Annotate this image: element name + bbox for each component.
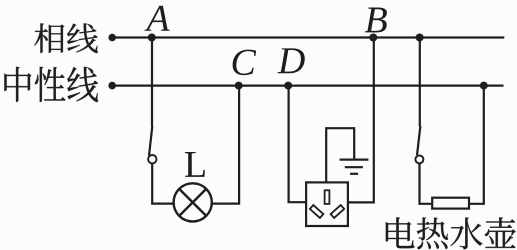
switch S1 blade (lamp switch) <box>149 126 152 155</box>
label node D <box>277 48 304 73</box>
wire socket earth hook <box>326 128 354 182</box>
wire phase line (相线 net) <box>112 36 504 38</box>
switch S2 contact circle <box>415 155 423 163</box>
socket X1 left slot <box>310 205 324 218</box>
node D (junction on neutral line) <box>284 82 292 90</box>
socket X1 earth slot (top) <box>325 190 330 204</box>
label node A <box>144 6 169 31</box>
wire neutral line (中性线 net) <box>112 84 504 86</box>
label node C <box>233 50 257 76</box>
node phase-kettle junction <box>416 34 424 42</box>
node neutral-kettle junction <box>480 82 488 90</box>
node neutral-line left terminal <box>108 82 116 90</box>
wire heater to neutral junction <box>470 86 484 204</box>
label 相线 (phase line) <box>34 23 97 53</box>
node A (junction on phase line) <box>148 34 156 42</box>
wire lamp to node C <box>212 86 239 204</box>
node phase-line left terminal <box>108 34 116 42</box>
wire phase junction down to switch S2 <box>419 38 421 127</box>
lamp L symbol (circle with X) <box>174 183 212 221</box>
heater element (electric kettle) <box>432 198 469 209</box>
wire switch S1 down to lamp <box>152 163 173 203</box>
wire D down to socket left <box>289 86 306 203</box>
label 中性线 (neutral line) <box>4 67 98 102</box>
switch S1 contact circle <box>148 155 156 163</box>
ground symbol <box>340 160 369 174</box>
node C (junction on neutral line) <box>235 82 243 90</box>
socket X1 right slot <box>331 205 345 218</box>
wire B down to socket right <box>348 38 373 203</box>
label node B <box>365 8 387 33</box>
label lamp L <box>185 152 205 177</box>
wire switch S2 down to heater <box>420 163 432 204</box>
label 电热水壶 (electric kettle) <box>386 217 516 249</box>
socket X1 outline <box>306 182 348 226</box>
switch S2 blade (kettle switch) <box>417 126 420 155</box>
wire A down to switch S1 <box>151 38 153 127</box>
node B (junction on phase line) <box>369 34 377 42</box>
